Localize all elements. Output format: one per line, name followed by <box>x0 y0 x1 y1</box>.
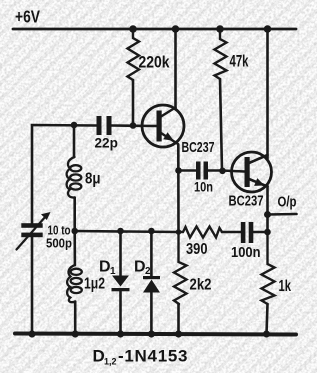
svg-text:D: D <box>93 347 105 366</box>
svg-text:8μ: 8μ <box>85 171 101 188</box>
wire: variable capacitor to ground <box>31 237 34 334</box>
wire: 2k2 to ground <box>177 304 180 334</box>
node 47k-base2 <box>219 168 226 175</box>
wire: left column top corner to tuned-circuit node <box>32 125 97 224</box>
node rail-Q1c <box>172 25 180 33</box>
svg-text:-1N4153: -1N4153 <box>118 347 188 366</box>
wire: 390 to 100n <box>222 231 241 234</box>
wire: Q2 emitter to O/p node <box>266 186 269 232</box>
transistor Q2 BC237 <box>232 152 272 192</box>
+6V supply rail <box>13 28 296 31</box>
node mid-8u <box>71 228 78 235</box>
svg-text:1μ2: 1μ2 <box>84 276 105 293</box>
wire: emitter node to 10n <box>179 169 196 172</box>
node 100n-out <box>264 229 271 236</box>
node gnd-D2 <box>148 330 155 337</box>
node gnd-1k <box>263 331 270 338</box>
wire: D2 top <box>150 231 153 277</box>
svg-text:D: D <box>99 259 111 276</box>
node mid-390 <box>176 229 182 235</box>
node gnd-2k2 <box>175 330 182 337</box>
wire: mid horizontal bus <box>74 231 179 232</box>
node mid-D1 <box>117 228 124 235</box>
wire: 22p to Q1 base <box>112 124 157 127</box>
svg-text:BC237: BC237 <box>182 139 215 156</box>
wire: D1 top <box>119 231 122 276</box>
wire: tuned node down to 8u <box>73 125 76 157</box>
inductor 1u2 <box>67 265 82 302</box>
svg-text:BC237: BC237 <box>229 194 264 210</box>
wire: Q1 collector <box>174 29 177 108</box>
variable capacitor 10 to 500p <box>17 212 51 250</box>
wire: 220k to Q1 base node <box>132 80 135 126</box>
inductor 8u <box>67 157 82 198</box>
node rail-Q2c <box>264 25 272 33</box>
wire: 10n to Q2 base node <box>208 169 222 172</box>
wire: 1k to ground <box>267 304 268 334</box>
wire: 47k to Q2 base node <box>220 79 222 171</box>
svg-text:500p: 500p <box>46 237 72 251</box>
capacitor 22p <box>97 116 112 135</box>
transistor Q1 BC237 <box>142 105 184 147</box>
ground rail <box>15 334 296 335</box>
svg-text:1k: 1k <box>279 278 292 295</box>
node rail-47k <box>216 25 224 33</box>
node rail-220k <box>129 25 137 33</box>
wire: D2 to ground <box>150 293 153 335</box>
resistor 220k <box>128 29 140 80</box>
wire: 8u to mid node <box>73 198 76 232</box>
resistor 2k2 <box>174 232 187 304</box>
svg-text:D: D <box>134 259 146 276</box>
svg-text:1: 1 <box>110 266 116 277</box>
node emitter1-10n <box>175 167 182 174</box>
wire: Q1 emitter down <box>177 145 180 233</box>
svg-text:1,2: 1,2 <box>104 357 117 367</box>
resistor 1k <box>262 232 275 304</box>
caption D1,2-1N4153 <box>93 347 188 367</box>
svg-text:47k: 47k <box>230 52 249 71</box>
capacitor 10n <box>196 162 208 180</box>
node gnd-1u2 <box>72 330 79 337</box>
svg-text:2k2: 2k2 <box>190 277 212 294</box>
node gnd-D1 <box>117 330 124 337</box>
capacitor 100n <box>241 222 254 243</box>
node mid-D2 <box>148 228 155 235</box>
node gnd-varcap <box>28 330 35 337</box>
node base1-220k <box>130 122 137 129</box>
svg-text:10 to: 10 to <box>48 224 71 238</box>
wire: mid node to 1u2 <box>73 231 76 265</box>
wire: D1 to ground <box>119 291 122 334</box>
wire: 1u2 to ground <box>74 302 77 335</box>
wire: Q2 base <box>222 171 245 172</box>
svg-text:390: 390 <box>186 241 208 258</box>
resistor 47k <box>215 29 227 79</box>
svg-text:O/p: O/p <box>278 195 297 211</box>
svg-text:22p: 22p <box>95 135 118 151</box>
svg-text:2: 2 <box>145 266 151 277</box>
diode D1 <box>112 276 130 292</box>
svg-text:+6V: +6V <box>15 7 40 27</box>
wire: O/p stub <box>268 213 297 216</box>
diode D2 <box>143 276 160 293</box>
node O/p <box>264 211 271 218</box>
node tuned-8u <box>71 122 78 129</box>
svg-text:220k: 220k <box>139 53 170 72</box>
resistor 390 <box>179 227 223 238</box>
svg-text:10n: 10n <box>194 179 213 195</box>
svg-text:100n: 100n <box>231 244 261 261</box>
wire: Q2 collector <box>266 29 269 159</box>
wire: 100n to output column <box>254 231 268 234</box>
